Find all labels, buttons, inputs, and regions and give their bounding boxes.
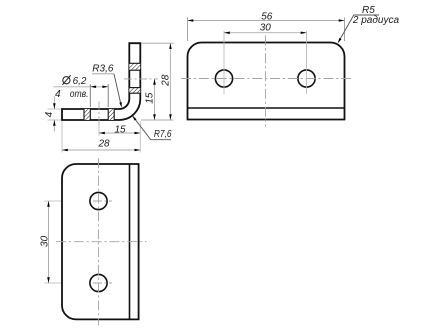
leader R3,6 <box>92 73 114 75</box>
extension lines for dia 6,2 <box>89 84 91 107</box>
top view outline <box>62 164 139 319</box>
dimension 28 (vertical) <box>169 43 171 120</box>
front view horizontal centerline <box>181 78 351 80</box>
extension lines for thickness 4 <box>48 108 62 110</box>
svg-text:R3,6: R3,6 <box>92 64 114 75</box>
leader R7,6 <box>133 116 171 140</box>
centerline of hole in horizontal leg <box>98 102 100 127</box>
dimension 15 (horizontal) <box>99 132 140 134</box>
diameter symbol <box>63 77 70 84</box>
svg-text:30: 30 <box>260 23 272 34</box>
dimension 28 (horizontal) <box>62 149 140 151</box>
leader R5 2 radii <box>338 15 379 42</box>
top view hole upper <box>90 192 107 209</box>
svg-text:15: 15 <box>145 92 156 104</box>
svg-text:28: 28 <box>97 138 110 149</box>
hatched hole section (horizontal leg) <box>84 109 90 120</box>
top view hole lower <box>90 274 107 291</box>
svg-text:15: 15 <box>114 124 126 135</box>
dimension 4 (thickness) <box>53 96 55 109</box>
front view vertical centerline <box>265 36 267 127</box>
centerline of hole in vertical leg <box>124 78 158 80</box>
top view vertical centerline <box>98 158 100 326</box>
front view bend line <box>188 107 345 109</box>
dimension dia 6,2 / 4 holes <box>54 86 109 88</box>
dimension 30 (top view) <box>48 201 50 283</box>
svg-text:R7,6: R7,6 <box>154 129 172 140</box>
dimension 30 <box>224 32 307 34</box>
front view hole right <box>298 70 315 87</box>
top view horizontal centerline <box>56 241 147 243</box>
top view bend line <box>129 164 131 319</box>
extension lines for 30 (top view) <box>45 200 62 202</box>
side view L-profile outline <box>62 43 140 120</box>
svg-text:6,2: 6,2 <box>73 76 87 87</box>
hatched hole section (vertical leg) <box>129 63 140 70</box>
svg-text:28: 28 <box>161 74 172 87</box>
svg-text:4: 4 <box>55 89 61 100</box>
svg-text:отв.: отв. <box>70 89 89 100</box>
extension lines right of side view <box>141 42 174 44</box>
svg-text:4: 4 <box>44 111 55 117</box>
svg-text:30: 30 <box>39 235 50 247</box>
hole cross dashes <box>93 200 112 202</box>
front view hole left <box>215 70 232 87</box>
dimension 15 (vertical) <box>154 79 156 120</box>
extension lines below side view <box>98 121 100 136</box>
front view outline <box>188 43 345 120</box>
svg-text:2 радиуса: 2 радиуса <box>352 15 400 26</box>
dimension 56 <box>188 20 345 22</box>
svg-text:56: 56 <box>261 11 273 22</box>
hole centerlines / extension lines <box>223 31 225 94</box>
